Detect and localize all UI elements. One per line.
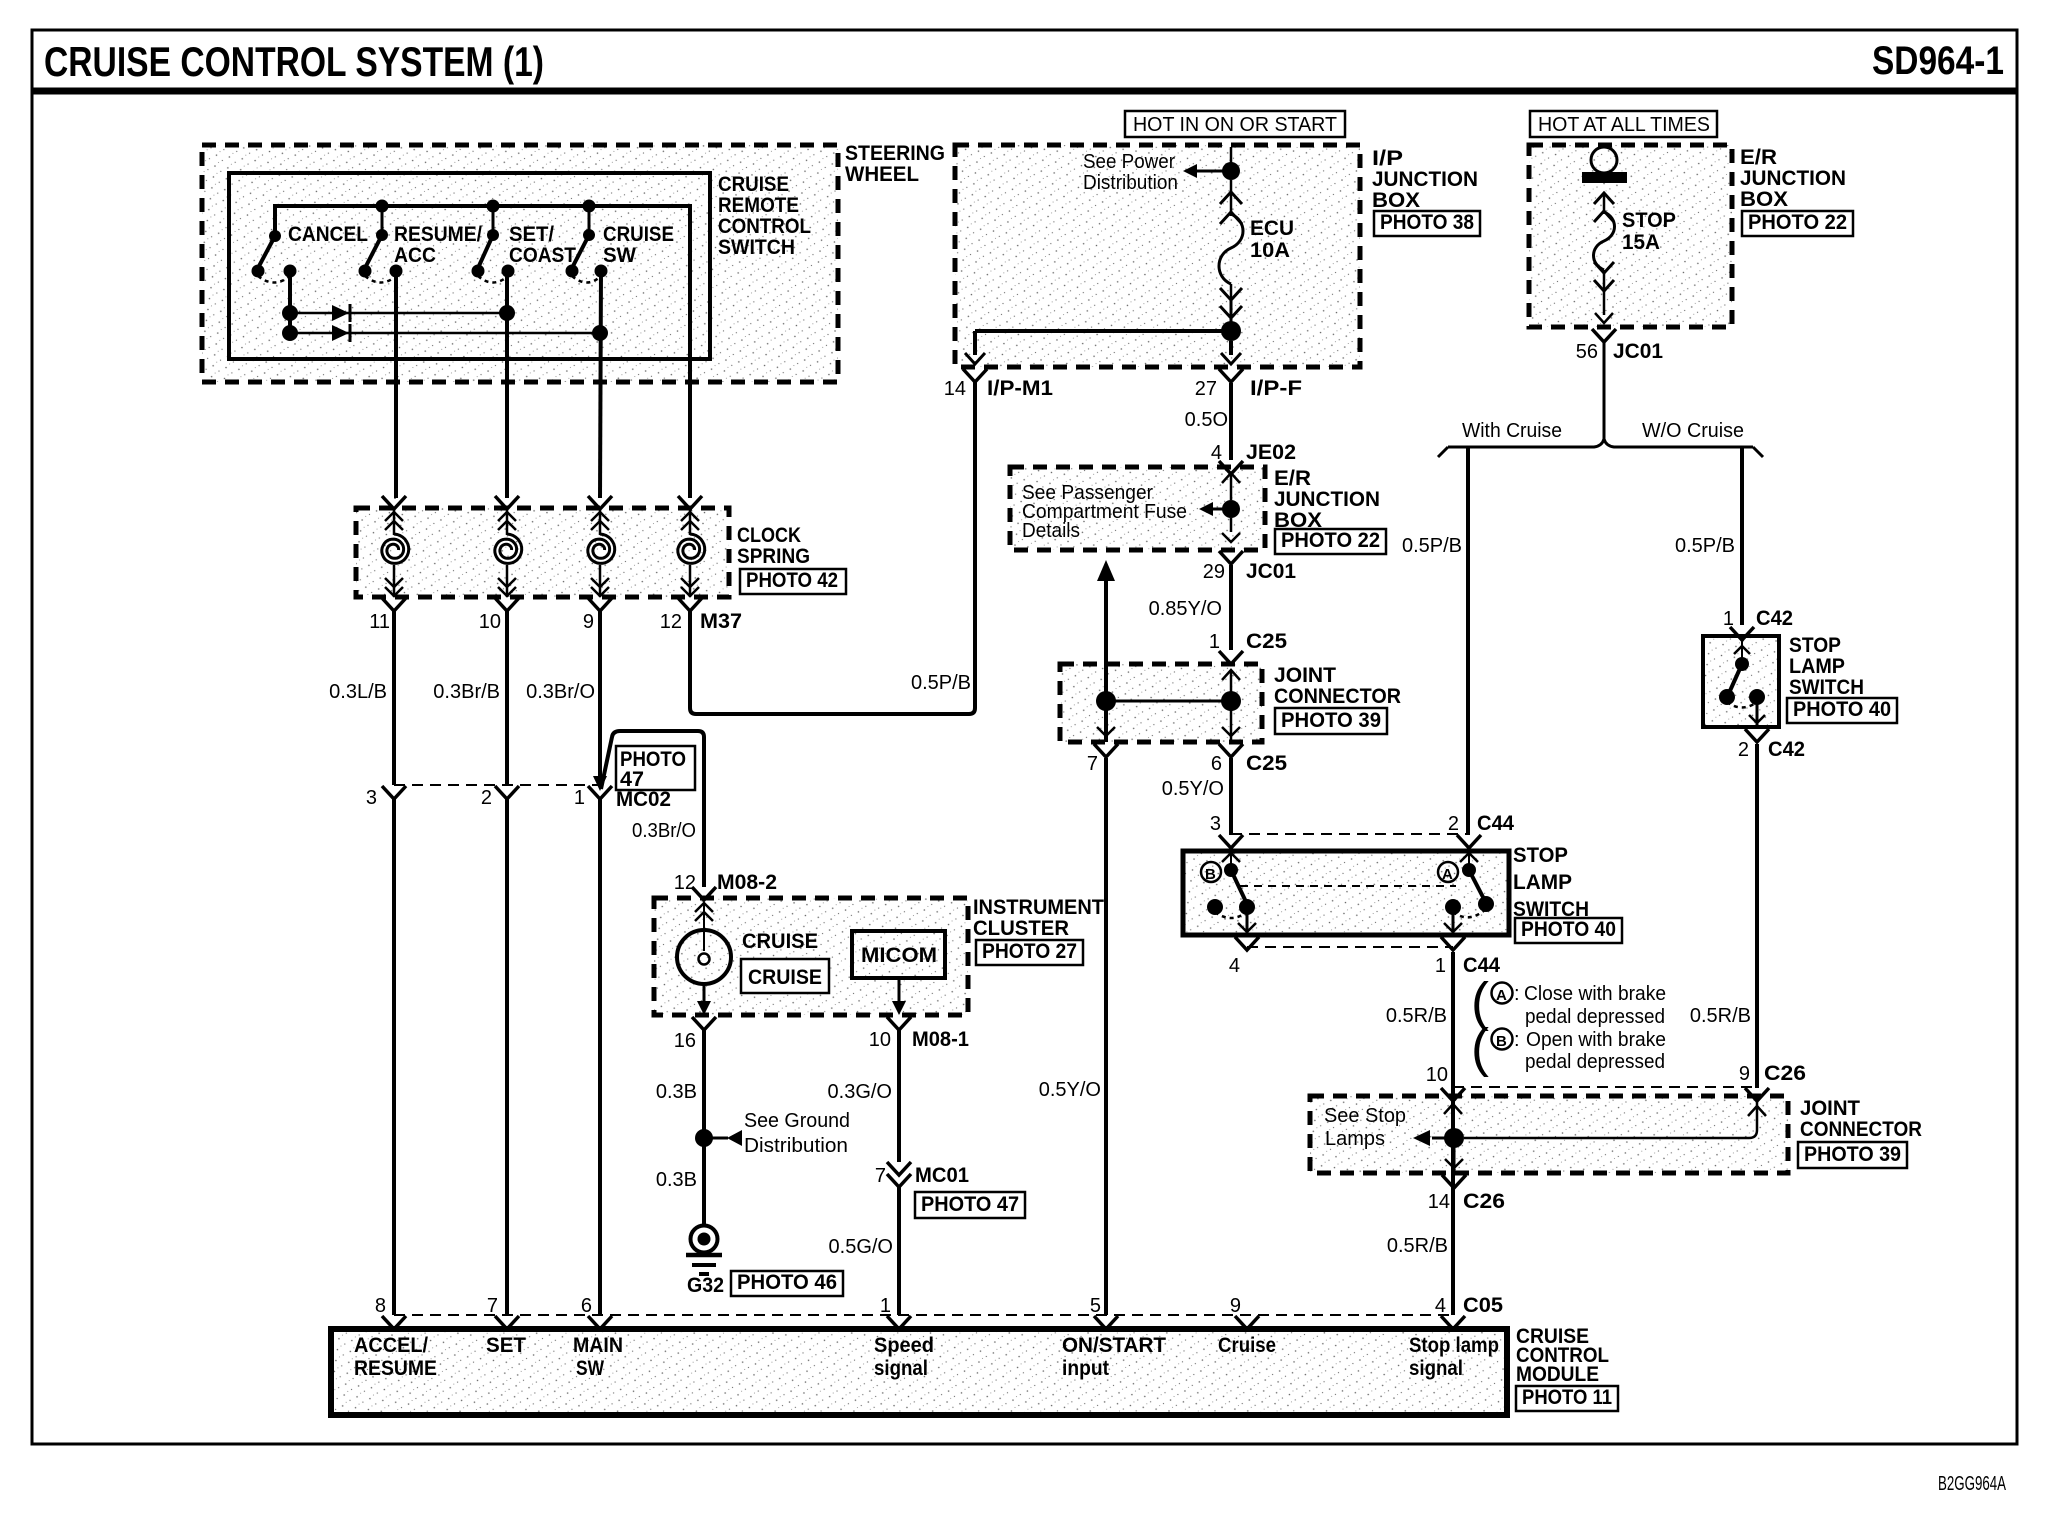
wire 0.3G/O label [828, 1081, 892, 1103]
svg-text:0.3G/O: 0.3G/O [828, 1081, 892, 1103]
svg-text:0.3Br/O: 0.3Br/O [632, 820, 696, 842]
svg-text:0.5Y/O: 0.5Y/O [1162, 778, 1224, 800]
wire junction box internal [975, 331, 1231, 355]
svg-text:CONNECTOR: CONNECTOR [1800, 1118, 1922, 1141]
svg-text:56: 56 [1576, 341, 1598, 363]
connector C26 pin14 [1428, 1190, 1505, 1213]
wire 0.5Y/O label (col5) [1039, 1079, 1101, 1101]
svg-text:7: 7 [1087, 753, 1098, 775]
E/R junction box label (mid) [1274, 467, 1380, 532]
svg-text:CRUISE: CRUISE [718, 173, 789, 196]
connector JE02 [1211, 441, 1296, 474]
svg-text:G32: G32 [687, 1274, 724, 1297]
svg-text:2: 2 [1448, 813, 1459, 835]
svg-text:12: 12 [660, 611, 682, 633]
svg-text:(: ( [1471, 1018, 1489, 1078]
wire col2 MC02-module [505, 799, 509, 1315]
wire w/o-cruise branch [1740, 448, 1744, 625]
wire 0.5R/B label (upper) [1386, 1005, 1447, 1027]
wire 0.5R/B label (lower) [1387, 1235, 1448, 1257]
svg-text:0.5P/B: 0.5P/B [1675, 535, 1735, 557]
svg-text:1: 1 [1723, 608, 1734, 630]
node joint2 [1444, 1128, 1464, 1148]
joint2 exit [1442, 1148, 1466, 1188]
footer code B2GG964A [1938, 1473, 2006, 1495]
svg-text:1: 1 [574, 787, 585, 809]
svg-text:MODULE: MODULE [1516, 1363, 1599, 1386]
svg-text:PHOTO 22: PHOTO 22 [1748, 211, 1847, 234]
svg-text:0.3B: 0.3B [656, 1169, 697, 1191]
svg-text::: : [1514, 1029, 1520, 1051]
fuse ECU 10A label [1250, 217, 1294, 262]
wire lamp to ground [702, 1030, 706, 1225]
ground G32 label [687, 1274, 724, 1297]
svg-text:2: 2 [1738, 739, 1749, 761]
svg-text:14: 14 [1428, 1191, 1450, 1213]
ground G32 symbol [686, 1226, 722, 1275]
svg-text:15A: 15A [1622, 231, 1660, 254]
svg-text:See Power: See Power [1083, 151, 1175, 173]
svg-text:PHOTO 38: PHOTO 38 [1380, 211, 1474, 234]
svg-text:0.3Br/O: 0.3Br/O [526, 681, 595, 703]
fuse ECU 10A [1219, 180, 1243, 322]
svg-text:B: B [1205, 866, 1216, 883]
connector JC01 pin56 exit [1576, 313, 1664, 363]
svg-text:B: B [1496, 1033, 1507, 1050]
wire 0.5G/O label [829, 1236, 893, 1258]
E/R junction box label (right) [1740, 146, 1846, 211]
module pin label ON/START input [1062, 1334, 1166, 1380]
switch CRUISE SW [566, 223, 675, 283]
wire pin12 feed to I/P-M1 [690, 382, 975, 714]
wire 0.3B label upper [656, 1081, 697, 1103]
svg-text:JOINT: JOINT [1800, 1097, 1860, 1120]
switch CANCEL [252, 223, 369, 283]
svg-text:14: 14 [944, 378, 966, 400]
svg-text:0.5O: 0.5O [1185, 409, 1228, 431]
svg-text:1: 1 [880, 1295, 891, 1317]
legend A circle [1492, 983, 1520, 1006]
svg-text:12: 12 [674, 872, 696, 894]
svg-text:0.5G/O: 0.5G/O [829, 1236, 893, 1258]
ER fuse details enclosure (dashed) [1010, 467, 1265, 550]
svg-text:MC02: MC02 [616, 788, 671, 811]
clock spring label [737, 524, 810, 568]
svg-text:LAMP: LAMP [1789, 655, 1845, 678]
svg-text:0.5P/B: 0.5P/B [911, 672, 971, 694]
connector C44 pin3 [1210, 813, 1243, 848]
connector C26 line [1453, 1086, 1757, 1088]
svg-text:29: 29 [1203, 561, 1225, 583]
svg-text:0.5R/B: 0.5R/B [1690, 1005, 1751, 1027]
svg-text:LAMP: LAMP [1513, 871, 1572, 894]
svg-text:C05: C05 [1463, 1294, 1503, 1317]
svg-text:PHOTO 39: PHOTO 39 [1281, 709, 1381, 732]
connector C44 pins 4/1 [1229, 954, 1500, 977]
svg-text:COAST: COAST [509, 244, 576, 267]
stem wire resume [381, 206, 384, 232]
joint connector 2 enclosure (dashed) [1310, 1096, 1788, 1173]
connector MC01 [875, 1162, 969, 1187]
cruise indicator lamp [677, 930, 731, 984]
svg-text:See Ground: See Ground [744, 1110, 850, 1132]
svg-text:CONTROL: CONTROL [718, 215, 811, 238]
svg-text:CRUISE: CRUISE [748, 966, 822, 989]
node bus-resume [376, 200, 389, 213]
connector MC02 pin2 [481, 786, 519, 809]
svg-text:0.3Br/B: 0.3Br/B [433, 681, 500, 703]
legend brace A [1471, 972, 1489, 1032]
svg-text:CRUISE CONTROL SYSTEM (1): CRUISE CONTROL SYSTEM (1) [44, 38, 544, 85]
wire cancel output [288, 271, 292, 333]
svg-text:Lamps: Lamps [1325, 1128, 1385, 1150]
steering wheel enclosure (dashed) [202, 145, 838, 382]
svg-text:PHOTO 11: PHOTO 11 [1522, 1386, 1612, 1409]
clock spring coil a at x=394 [382, 496, 409, 611]
wire col1 MC02-module [392, 799, 396, 1315]
svg-text:9: 9 [583, 611, 594, 633]
connector I/P-F pin27 [1195, 341, 1302, 400]
joint connector 2 label [1800, 1097, 1922, 1141]
supply bus wire [275, 206, 690, 498]
svg-text:I/P-F: I/P-F [1250, 377, 1302, 400]
node cruise-j [592, 325, 608, 341]
svg-text:CRUISE: CRUISE [603, 223, 674, 246]
joint connector 1 label [1274, 664, 1401, 708]
svg-text:PHOTO 47: PHOTO 47 [921, 1193, 1019, 1216]
node power distribution [1222, 162, 1240, 180]
svg-text:6: 6 [1211, 753, 1222, 775]
connector C44 bottom line [1247, 946, 1453, 948]
svg-text:PHOTO 40: PHOTO 40 [1521, 918, 1616, 941]
joint connector 1 entry [1222, 670, 1240, 701]
stop lamp switch small box [1703, 636, 1779, 727]
svg-text:MC01: MC01 [915, 1164, 969, 1187]
joint connector 2 entry left [1444, 1104, 1462, 1114]
hot in on or start tag [1125, 111, 1345, 137]
diode link wire 2 [290, 332, 600, 335]
svg-text:A: A [1496, 987, 1507, 1004]
svg-text:CLOCK: CLOCK [737, 524, 801, 547]
stop lamp switch box [1183, 851, 1509, 935]
wire joint1 to stop lamp switch [1229, 758, 1233, 835]
title divider bar [32, 88, 2017, 95]
wire split bar [1438, 439, 1763, 457]
node cancel-j1 [282, 305, 298, 321]
svg-text:10: 10 [1426, 1064, 1448, 1086]
photo ref PHOTO 46 [731, 1271, 843, 1296]
svg-text:0.3L/B: 0.3L/B [329, 681, 387, 703]
wire I/P-F to JE02 [1229, 383, 1233, 460]
connector C42 pin2 [1738, 738, 1805, 761]
svg-text:JC01: JC01 [1246, 560, 1296, 583]
wire 0.85Y/O label [1149, 598, 1222, 620]
legend B text [1525, 1029, 1666, 1073]
see stop lamps text [1324, 1105, 1406, 1150]
node cancel-j2 [282, 325, 298, 341]
wire MC01 to module [897, 1187, 901, 1315]
svg-text:11: 11 [369, 611, 390, 633]
svg-text:MAIN: MAIN [573, 1334, 623, 1357]
svg-text:W/O Cruise: W/O Cruise [1642, 420, 1744, 442]
I/P junction box label [1372, 147, 1478, 212]
module pin label ACCEL/RESUME [354, 1334, 437, 1380]
svg-text:CRUISE: CRUISE [742, 930, 818, 953]
wire resume column upper [394, 271, 396, 498]
cruise control module label [1516, 1325, 1609, 1386]
svg-text:47: 47 [620, 768, 644, 791]
connector C44 top line [1231, 833, 1469, 835]
svg-text:ACC: ACC [394, 244, 436, 267]
wire col3 MC02-module [598, 799, 602, 1315]
photo ref PHOTO 40 (main) [1515, 918, 1622, 943]
svg-text:E/R: E/R [1740, 146, 1777, 169]
module pin label Cruise [1218, 1334, 1276, 1357]
svg-text:M08-1: M08-1 [912, 1028, 969, 1051]
svg-text:Distribution: Distribution [744, 1135, 848, 1157]
svg-text:27: 27 [1195, 378, 1217, 400]
see power distribution text [1083, 151, 1178, 194]
wire into ER box [1222, 473, 1240, 500]
wire C42 to C26 pin9 [1755, 744, 1759, 1088]
svg-text:0.85Y/O: 0.85Y/O [1149, 598, 1222, 620]
svg-text:9: 9 [1230, 1295, 1241, 1317]
switch SET/COAST [472, 223, 577, 283]
fusible link STOP 15A [1582, 147, 1627, 315]
connector C05 line [394, 1314, 1453, 1316]
cluster entry arrows [695, 903, 713, 931]
photo ref PHOTO 47 (MC02) [616, 746, 695, 791]
joint1 bus wire [1106, 700, 1231, 703]
photo ref PHOTO 39 (1) [1275, 708, 1387, 734]
svg-text:I/P: I/P [1372, 147, 1403, 170]
cruise lamp label [742, 930, 818, 953]
svg-text::: : [1514, 983, 1520, 1005]
svg-text:10: 10 [869, 1029, 891, 1051]
svg-text:MICOM: MICOM [861, 944, 937, 967]
svg-text:M37: M37 [700, 610, 742, 633]
svg-text:B2GG964A: B2GG964A [1938, 1473, 2006, 1495]
connector MC02 name [616, 788, 671, 811]
photo ref PHOTO 40 (small) [1787, 698, 1897, 723]
connector MC02 pin1 [574, 776, 612, 809]
photo ref PHOTO 47 (MC01) [915, 1192, 1025, 1218]
with cruise label [1462, 420, 1562, 442]
connector MC02 line [394, 784, 598, 786]
svg-text:A: A [1442, 866, 1453, 883]
svg-text:0.5R/B: 0.5R/B [1387, 1235, 1448, 1257]
node fuse output [1221, 321, 1241, 341]
cruise legend box [741, 959, 829, 993]
switch RESUME/ACC [359, 223, 483, 283]
svg-text:STEERING: STEERING [845, 142, 945, 165]
see passenger arrow [1199, 502, 1231, 516]
legend A text [1524, 983, 1666, 1028]
cruise remote control switch box [229, 173, 710, 359]
svg-text:RESUME: RESUME [354, 1357, 437, 1380]
wire with-cruise branch [1466, 448, 1470, 835]
svg-text:I/P-M1: I/P-M1 [987, 377, 1053, 400]
connector M37 name [700, 610, 742, 633]
svg-text:C42: C42 [1756, 607, 1793, 630]
connector M37 pin numbers [369, 611, 682, 633]
stop lamp switch small mech [1719, 640, 1769, 742]
svg-text:Stop lamp: Stop lamp [1409, 1334, 1499, 1357]
joint2 link wire from pin9 [1464, 1100, 1766, 1138]
module pin label MAIN SW [573, 1334, 623, 1380]
photo ref PHOTO 22 (mid) [1275, 529, 1386, 554]
wire set column upper [505, 271, 509, 498]
module pin label Speed signal [874, 1334, 934, 1380]
steering wheel label [845, 142, 945, 186]
photo ref PHOTO 22 (right) [1742, 211, 1853, 236]
wire JC01-56 down [1603, 343, 1606, 440]
svg-text:4: 4 [1229, 955, 1240, 977]
wire 0.5O label [1185, 409, 1228, 431]
svg-text:JE02: JE02 [1246, 441, 1296, 464]
legend brace B [1471, 1018, 1489, 1078]
svg-text:HOT AT ALL TIMES: HOT AT ALL TIMES [1538, 114, 1710, 136]
svg-text:0.5P/B: 0.5P/B [1402, 535, 1462, 557]
photo ref PHOTO 38 [1374, 211, 1480, 236]
svg-text:6: 6 [581, 1295, 592, 1317]
svg-text:PHOTO 40: PHOTO 40 [1793, 698, 1891, 721]
svg-text:input: input [1062, 1357, 1109, 1380]
svg-text:REMOTE: REMOTE [718, 194, 799, 217]
svg-text:HOT IN ON OR START: HOT IN ON OR START [1133, 114, 1337, 136]
photo ref PHOTO 42 [740, 569, 846, 594]
wire to fuse details (arrow up) [1097, 560, 1115, 742]
svg-text:1: 1 [1209, 631, 1220, 653]
svg-text:10A: 10A [1250, 239, 1290, 262]
svg-text:SW: SW [576, 1357, 604, 1380]
I/P junction box enclosure (dashed) [955, 145, 1360, 367]
svg-text:C44: C44 [1477, 812, 1514, 835]
connector C26 pin9 [1739, 1062, 1806, 1101]
svg-text:0.5R/B: 0.5R/B [1386, 1005, 1447, 1027]
connector M08-2 pin12 [674, 871, 777, 900]
connector JC01 pin29 [1203, 560, 1297, 583]
svg-text:With Cruise: With Cruise [1462, 420, 1562, 442]
svg-text:CLUSTER: CLUSTER [973, 917, 1069, 940]
wire 0.5P/B label (feed) [911, 672, 971, 694]
wire 0.3L/B label [329, 681, 387, 703]
wire col1 M37-MC02 [392, 611, 396, 785]
module pin label SET [486, 1334, 526, 1357]
svg-text:0.3B: 0.3B [656, 1081, 697, 1103]
svg-text:M08-2: M08-2 [717, 871, 777, 894]
svg-text:C25: C25 [1246, 630, 1287, 653]
stem wire cruise [588, 206, 591, 232]
svg-text:10: 10 [479, 611, 501, 633]
svg-text:9: 9 [1739, 1063, 1750, 1085]
title text [44, 38, 544, 85]
diode D2 [332, 324, 350, 342]
svg-text:JUNCTION: JUNCTION [1274, 488, 1380, 511]
connector C25 pins 7/6 [1087, 752, 1287, 775]
connector C26 pin10 [1426, 1064, 1465, 1101]
svg-text:7: 7 [875, 1165, 886, 1187]
stop lamp switch label (small) [1789, 634, 1864, 699]
stop lamp switch label (main) [1513, 844, 1589, 921]
svg-text:See Stop: See Stop [1324, 1105, 1406, 1127]
clock spring coil c at x=600 [588, 496, 615, 611]
svg-text:SET/: SET/ [509, 223, 554, 246]
clock spring coil d at x=690 [678, 496, 705, 611]
svg-text:JOINT: JOINT [1274, 664, 1336, 687]
wire C44-1 to C26-10 [1451, 952, 1455, 1315]
node bus-set [487, 200, 500, 213]
micom output wire [887, 978, 911, 1030]
cruise remote control switch label [718, 173, 811, 259]
svg-text:0.5Y/O: 0.5Y/O [1039, 1079, 1101, 1101]
connector C42 pin1 [1723, 607, 1793, 640]
svg-text:PHOTO 42: PHOTO 42 [746, 569, 838, 592]
wire 0.5P/B label (w/o) [1675, 535, 1735, 557]
svg-text:WHEEL: WHEEL [845, 163, 919, 186]
connector C05 pins [375, 1295, 1465, 1329]
connector C25 pin1 [1209, 630, 1287, 664]
clock spring enclosure (dashed) [356, 508, 729, 597]
svg-text:Cruise: Cruise [1218, 1334, 1276, 1357]
connector I/P-M1 pin14 [944, 353, 1054, 400]
photo ref PHOTO 39 (2) [1798, 1142, 1907, 1168]
svg-text:pedal depressed: pedal depressed [1525, 1051, 1665, 1073]
node ER junction [1222, 500, 1240, 518]
connector MC02 pin3 [366, 786, 406, 809]
svg-text:pedal depressed: pedal depressed [1525, 1006, 1665, 1028]
svg-text:7: 7 [487, 1295, 498, 1317]
svg-text:PHOTO 46: PHOTO 46 [737, 1271, 837, 1294]
see passenger text [1022, 482, 1187, 542]
wire branch MC02 to M08-2 [601, 731, 704, 887]
wire 0.5Y/O label (C25-C44) [1162, 778, 1224, 800]
svg-text:SW: SW [603, 244, 636, 267]
svg-text:C42: C42 [1768, 738, 1805, 761]
svg-text:Details: Details [1022, 520, 1080, 542]
wire ER down [1219, 518, 1243, 564]
wire 0.5R/B label (w/o) [1690, 1005, 1751, 1027]
joint1 exits [1094, 701, 1243, 757]
svg-text:Close with brake: Close with brake [1524, 983, 1666, 1005]
wire 0.3Br/O label (branch) [632, 820, 696, 842]
hot at all times tag [1530, 111, 1717, 137]
svg-text:4: 4 [1435, 1295, 1446, 1317]
stop lamp switch B side [1201, 848, 1259, 950]
svg-text:ECU: ECU [1250, 217, 1294, 240]
wire fuse feed top [1230, 147, 1233, 165]
svg-text:SET: SET [486, 1334, 526, 1357]
svg-text:3: 3 [366, 787, 377, 809]
see ground distribution text [744, 1110, 850, 1157]
cruise control module box [331, 1329, 1507, 1415]
fusible link label [1622, 209, 1676, 254]
diode D1 [332, 304, 350, 322]
stop lamp switch mech link [1240, 885, 1456, 887]
svg-text:signal: signal [1409, 1357, 1463, 1380]
wire col3 M37-MC02 [598, 611, 602, 785]
svg-text:PHOTO 27: PHOTO 27 [982, 940, 1077, 963]
svg-text:RESUME/: RESUME/ [394, 223, 482, 246]
svg-text:STOP: STOP [1622, 209, 1676, 232]
svg-text:CANCEL: CANCEL [288, 223, 368, 246]
node set-j [499, 305, 515, 321]
svg-text:1: 1 [1435, 955, 1446, 977]
w/o cruise label [1642, 420, 1744, 442]
module pin label Stop lamp signal [1409, 1334, 1499, 1380]
wire 0.5P/B label (with) [1402, 535, 1462, 557]
wire 0.3B label lower [656, 1169, 697, 1191]
